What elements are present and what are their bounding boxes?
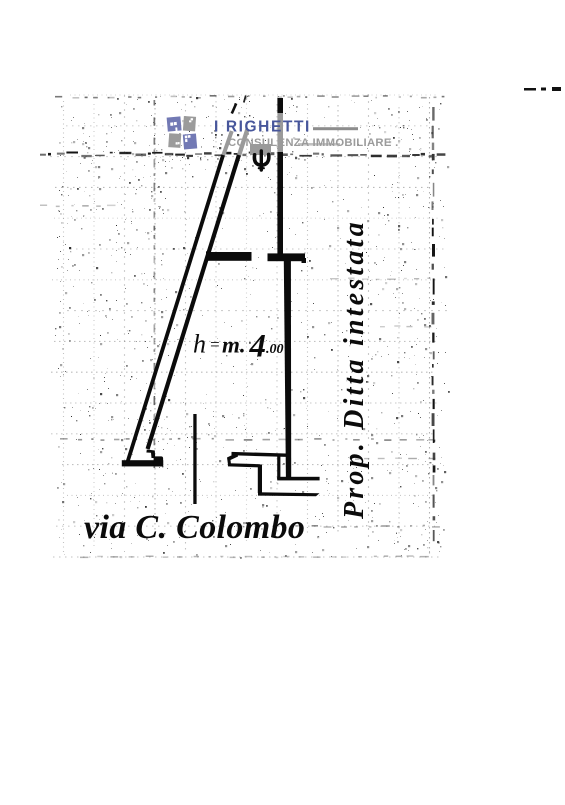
svg-text:I RIGHETTI: I RIGHETTI bbox=[214, 119, 311, 136]
right interior bar bbox=[268, 253, 306, 261]
left diagonal line of double wall bbox=[128, 155, 224, 462]
divider: short vertical line bbox=[193, 414, 196, 504]
svg-text:=: = bbox=[209, 335, 220, 354]
upper wall: vertical thick line top segment bbox=[277, 98, 283, 254]
logo gray rule after name bbox=[313, 127, 358, 130]
step structure: left hook bbox=[227, 453, 238, 465]
diagonal foot bottom bar bbox=[122, 460, 163, 466]
diagonal foot step bbox=[146, 450, 155, 459]
diagonal tick small bbox=[244, 96, 246, 103]
logo icon: four tilted squares bbox=[167, 116, 198, 150]
diagonal foot right blob bbox=[154, 456, 164, 466]
svg-text:h: h bbox=[193, 330, 206, 359]
scan speckle noise bbox=[55, 95, 450, 559]
partial darker dashed rows bbox=[40, 205, 440, 559]
step structure: bottom horizontal bbox=[258, 492, 320, 496]
column: thin vertical left edge bbox=[277, 456, 280, 479]
gray diagonal segments under logo band bbox=[223, 129, 340, 156]
lower wall: vertical thick line bottom segment bbox=[284, 261, 291, 477]
step structure: top horizontal bbox=[232, 454, 287, 456]
faint dotted scan row y96 bbox=[55, 95, 444, 99]
dark dashed scan row y153 bbox=[40, 152, 445, 158]
dashed grid column x433 bbox=[432, 107, 436, 541]
column: middle horizontal to right bbox=[277, 477, 319, 481]
faint graph-paper grid bbox=[50, 94, 449, 557]
right diagonal line of double wall bbox=[148, 155, 239, 449]
svg-text:Prop. Ditta intestata: Prop. Ditta intestata bbox=[339, 219, 370, 520]
svg-text:4: 4 bbox=[249, 329, 267, 365]
dashed grid column x154 bbox=[154, 100, 156, 468]
handwritten: h = m. 4.00 bbox=[193, 329, 284, 365]
right bar end tail bbox=[302, 258, 307, 263]
diagonal boundary wall: top tick above logo bbox=[232, 104, 236, 114]
svg-text:m.: m. bbox=[222, 333, 246, 358]
psi symbol bbox=[254, 151, 268, 170]
top-right corner dashes bbox=[524, 87, 561, 91]
svg-text:.00: .00 bbox=[266, 342, 284, 357]
svg-text:via C. Colombo: via C. Colombo bbox=[84, 509, 305, 546]
step structure: second horizontal bbox=[228, 465, 260, 466]
step structure: vertical drop bbox=[258, 465, 262, 494]
left interior bar bbox=[206, 252, 252, 261]
svg-text:CONSULENZA IMMOBILIARE .: CONSULENZA IMMOBILIARE . bbox=[228, 137, 399, 149]
